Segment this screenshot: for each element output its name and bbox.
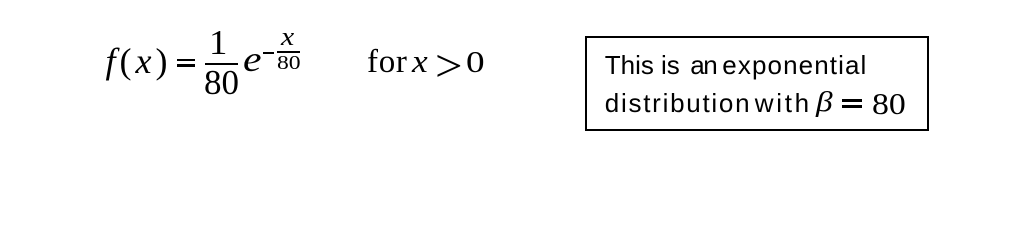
word with [755, 90, 812, 116]
fraction numerator 1 [209, 25, 227, 60]
fraction denominator 80 [204, 65, 239, 100]
equals sign bar 1 [177, 59, 196, 61]
equals in box bar 1 [842, 99, 862, 102]
word is [661, 52, 680, 78]
formula: f(x) [106, 43, 172, 79]
word an [690, 52, 716, 78]
exponent minus [263, 52, 275, 55]
word This [605, 52, 654, 78]
word distribution [605, 90, 752, 116]
note box [585, 36, 929, 131]
word exponential [722, 52, 867, 78]
beta [816, 88, 833, 117]
equals in box bar 2 [842, 105, 862, 108]
greater than [435, 43, 463, 89]
exponent denominator 80 [277, 53, 301, 73]
exponent numerator x [281, 24, 294, 50]
value 80 [872, 88, 906, 119]
fraction bar [205, 63, 238, 65]
exponent fraction bar [277, 51, 300, 53]
x condition [412, 46, 428, 79]
zero [466, 46, 485, 77]
for [367, 46, 408, 79]
e [243, 41, 262, 77]
equals sign bar 2 [177, 64, 196, 67]
